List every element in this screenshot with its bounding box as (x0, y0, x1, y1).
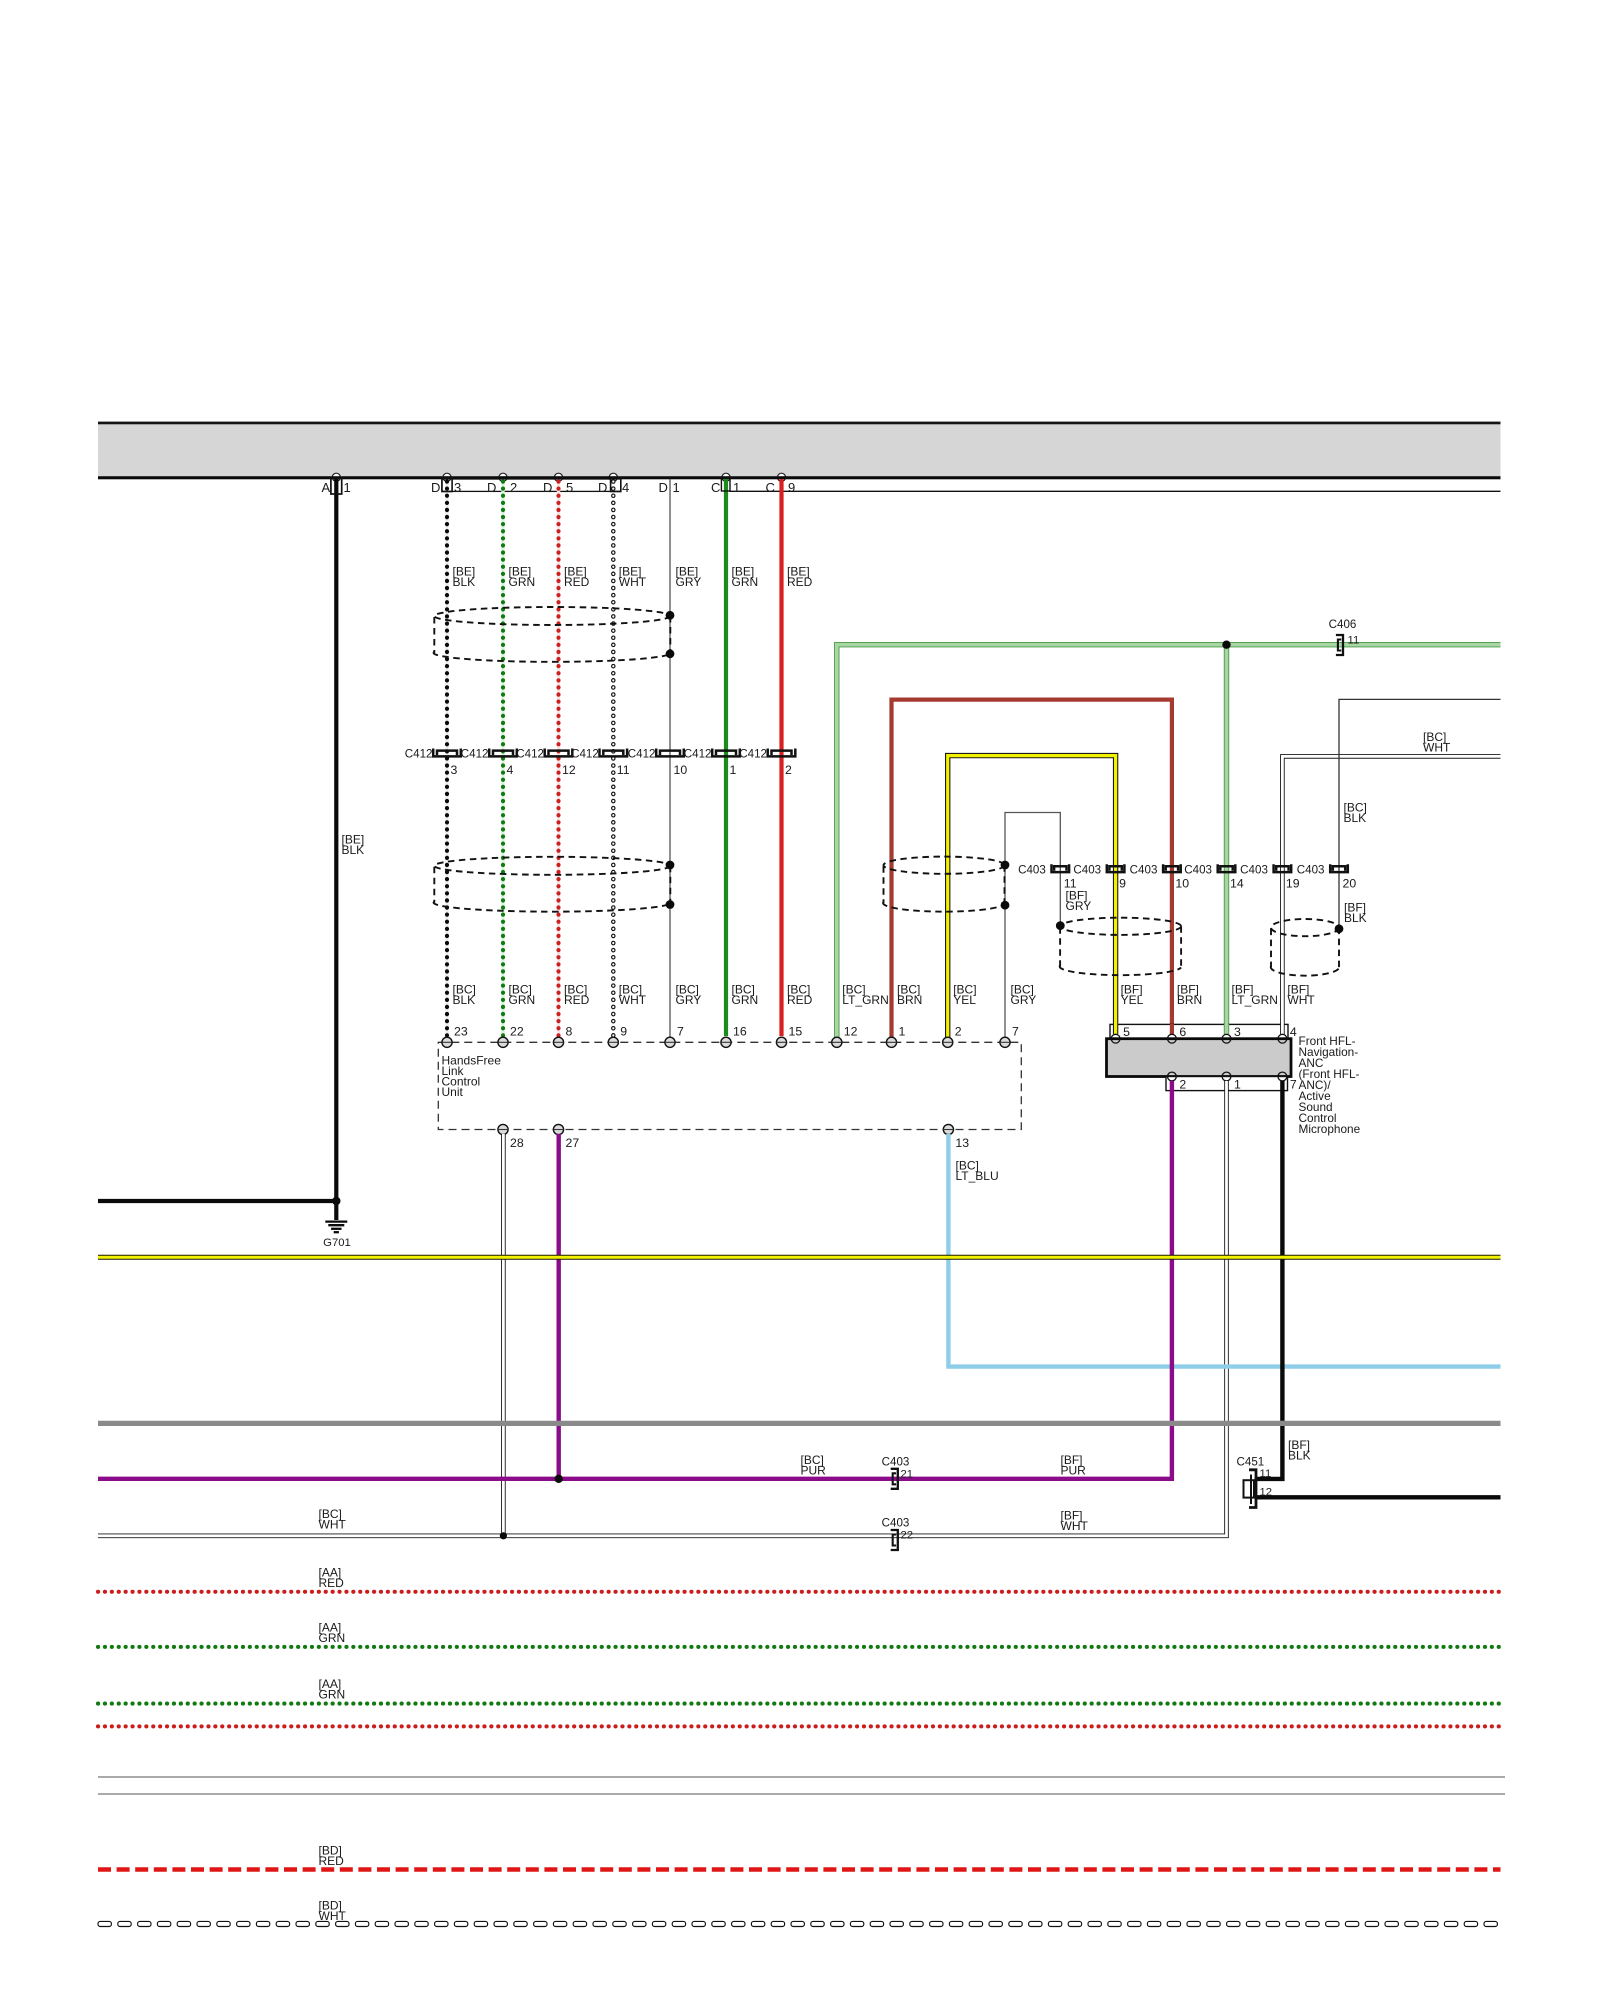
svg-text:3: 3 (454, 480, 461, 495)
svg-text:C403: C403 (1130, 864, 1158, 877)
svg-text:RED: RED (564, 993, 590, 1007)
svg-text:WHT: WHT (619, 575, 647, 589)
svg-text:RED: RED (787, 575, 813, 589)
svg-text:BLK: BLK (342, 843, 365, 857)
svg-text:5: 5 (566, 480, 573, 495)
svg-text:PUR: PUR (801, 1463, 827, 1477)
svg-text:C412: C412 (461, 748, 489, 761)
svg-text:C: C (766, 480, 775, 495)
svg-text:28: 28 (510, 1136, 524, 1150)
svg-text:WHT: WHT (619, 993, 647, 1007)
svg-text:14: 14 (1230, 877, 1244, 891)
svg-text:10: 10 (674, 763, 688, 777)
svg-text:12: 12 (844, 1025, 858, 1039)
svg-text:6: 6 (1179, 1025, 1186, 1039)
svg-text:3: 3 (451, 763, 458, 777)
svg-text:11: 11 (617, 763, 630, 777)
svg-text:1: 1 (899, 1025, 906, 1039)
svg-text:BRN: BRN (897, 993, 922, 1007)
svg-text:WHT: WHT (1423, 740, 1451, 754)
svg-text:C412: C412 (684, 748, 712, 761)
svg-text:C412: C412 (739, 748, 767, 761)
svg-text:2: 2 (955, 1025, 962, 1039)
svg-text:22: 22 (510, 1025, 524, 1039)
svg-text:C403: C403 (1073, 864, 1101, 877)
svg-text:12: 12 (1260, 1487, 1273, 1499)
svg-text:WHT: WHT (319, 1517, 347, 1531)
svg-text:1: 1 (1234, 1078, 1241, 1092)
svg-text:GRN: GRN (509, 993, 536, 1007)
svg-text:C403: C403 (1297, 864, 1325, 877)
svg-text:D: D (598, 480, 607, 495)
svg-text:GRN: GRN (732, 575, 759, 589)
svg-text:WHT: WHT (1287, 993, 1315, 1007)
svg-text:13: 13 (955, 1136, 969, 1150)
svg-text:A: A (322, 480, 331, 495)
svg-text:1: 1 (344, 480, 351, 495)
svg-text:C412: C412 (571, 748, 599, 761)
svg-text:RED: RED (564, 575, 590, 589)
svg-text:GRY: GRY (1066, 899, 1092, 913)
svg-text:D: D (543, 480, 552, 495)
svg-text:7: 7 (1290, 1078, 1297, 1092)
svg-text:GRN: GRN (319, 1631, 346, 1645)
svg-text:C: C (711, 480, 720, 495)
svg-text:C406: C406 (1329, 618, 1357, 631)
svg-text:C412: C412 (405, 748, 433, 761)
svg-text:BLK: BLK (453, 575, 476, 589)
svg-text:16: 16 (733, 1025, 747, 1039)
svg-text:1: 1 (733, 480, 740, 495)
svg-text:C403: C403 (1184, 864, 1212, 877)
svg-text:GRN: GRN (732, 993, 759, 1007)
svg-text:PUR: PUR (1061, 1463, 1087, 1477)
svg-text:C403: C403 (882, 1456, 910, 1469)
svg-text:4: 4 (622, 480, 629, 495)
svg-text:C412: C412 (628, 748, 656, 761)
svg-text:D: D (431, 480, 440, 495)
svg-text:1: 1 (730, 763, 737, 777)
svg-text:3: 3 (1234, 1025, 1241, 1039)
svg-text:20: 20 (1343, 877, 1357, 891)
svg-text:2: 2 (785, 763, 792, 777)
svg-text:BLK: BLK (1344, 911, 1367, 925)
svg-text:GRY: GRY (1011, 993, 1037, 1007)
svg-text:BLK: BLK (1344, 811, 1367, 825)
svg-text:RED: RED (319, 1576, 345, 1590)
svg-text:YEL: YEL (1121, 993, 1144, 1007)
svg-text:9: 9 (620, 1025, 627, 1039)
svg-text:RED: RED (319, 1854, 345, 1868)
svg-text:D: D (659, 480, 668, 495)
svg-text:GRY: GRY (676, 993, 702, 1007)
svg-text:BLK: BLK (1288, 1448, 1311, 1462)
svg-text:C403: C403 (882, 1517, 910, 1530)
svg-text:G701: G701 (323, 1237, 351, 1249)
svg-text:10: 10 (1175, 877, 1189, 891)
svg-text:C412: C412 (516, 748, 544, 761)
svg-text:LT_BLU: LT_BLU (956, 1169, 999, 1183)
svg-text:5: 5 (1123, 1025, 1130, 1039)
svg-text:GRY: GRY (676, 575, 702, 589)
svg-text:LT_GRN: LT_GRN (1232, 993, 1278, 1007)
svg-text:11: 11 (1348, 635, 1360, 647)
svg-text:C451: C451 (1237, 1456, 1265, 1469)
svg-text:19: 19 (1286, 877, 1300, 891)
svg-text:YEL: YEL (953, 993, 976, 1007)
svg-text:15: 15 (789, 1025, 803, 1039)
svg-text:23: 23 (454, 1025, 468, 1039)
svg-text:RED: RED (787, 993, 813, 1007)
svg-text:27: 27 (566, 1136, 580, 1150)
svg-text:22: 22 (901, 1530, 914, 1542)
svg-text:9: 9 (788, 480, 795, 495)
svg-text:BRN: BRN (1177, 993, 1202, 1007)
svg-text:21: 21 (901, 1469, 914, 1481)
svg-text:Microphone: Microphone (1299, 1122, 1361, 1136)
svg-text:4: 4 (507, 763, 514, 777)
svg-text:Unit: Unit (442, 1085, 464, 1099)
svg-text:D: D (487, 480, 496, 495)
svg-text:7: 7 (1012, 1025, 1019, 1039)
svg-text:7: 7 (677, 1025, 684, 1039)
svg-text:2: 2 (1179, 1078, 1186, 1092)
svg-text:11: 11 (1260, 1468, 1272, 1480)
svg-text:GRN: GRN (319, 1687, 346, 1701)
svg-text:8: 8 (566, 1025, 573, 1039)
svg-text:2: 2 (510, 480, 517, 495)
svg-text:12: 12 (562, 763, 576, 777)
svg-text:BLK: BLK (453, 993, 476, 1007)
svg-text:C403: C403 (1240, 864, 1268, 877)
svg-text:GRN: GRN (509, 575, 536, 589)
svg-text:9: 9 (1119, 877, 1126, 891)
svg-text:WHT: WHT (319, 1909, 347, 1923)
svg-text:1: 1 (673, 480, 680, 495)
svg-text:WHT: WHT (1061, 1519, 1089, 1533)
svg-text:LT_GRN: LT_GRN (842, 993, 888, 1007)
svg-text:C403: C403 (1018, 864, 1046, 877)
svg-text:4: 4 (1290, 1025, 1297, 1039)
